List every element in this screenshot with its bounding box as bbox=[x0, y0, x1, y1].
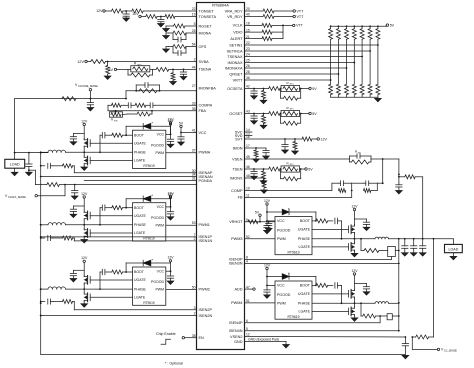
capacitor COCSETA1 bbox=[251, 89, 258, 100]
pin VCC (41) left side of U1 bbox=[192, 129, 207, 135]
resistor R27-3 pull-up bbox=[345, 26, 349, 84]
ground below bank bbox=[375, 97, 382, 102]
svg-text:ISEN4P: ISEN4P bbox=[229, 321, 243, 325]
svg-text:12V: 12V bbox=[77, 60, 84, 64]
pin TSEN (46) right side of U1 bbox=[232, 165, 250, 171]
resistor R37 VRHOT bbox=[248, 220, 258, 224]
node 12V drain supply UC bbox=[81, 256, 88, 275]
ground below QAL bbox=[81, 167, 88, 170]
ground for R5 bbox=[163, 26, 170, 32]
svg-text:4: 4 bbox=[246, 260, 248, 264]
svg-text:44: 44 bbox=[192, 66, 196, 70]
pin ISEN1P (7) left side of U1 bbox=[194, 233, 213, 239]
capacitor C4b boot bbox=[328, 283, 343, 305]
svg-text:IMONX: IMONX bbox=[230, 176, 243, 180]
pin VSEN2 (12) right side of U1 bbox=[230, 333, 250, 339]
svg-text:PHASE: PHASE bbox=[134, 223, 147, 227]
resistor R35 comp leg1 bbox=[338, 189, 345, 193]
svg-text:45: 45 bbox=[246, 155, 250, 159]
wire cell3 sense drop bbox=[360, 238, 364, 251]
node 8V supply for TSENA bbox=[108, 68, 128, 72]
transistor Q3H high-side MOSFET bbox=[349, 225, 355, 239]
pin COMP (10) right side of U1 bbox=[231, 187, 250, 193]
wire IMONFBA line bbox=[125, 91, 196, 100]
resistor ROCSET2 series bbox=[269, 112, 282, 116]
capacitor CBa VCC decoupling bbox=[167, 207, 174, 220]
svg-text:10: 10 bbox=[246, 187, 250, 191]
resistor R21 cell C sense bbox=[53, 300, 74, 310]
capacitor C7 parallel over R14 bbox=[136, 83, 159, 91]
svg-text:12V: 12V bbox=[351, 269, 358, 273]
svg-text:VRA_RDY: VRA_RDY bbox=[225, 9, 243, 13]
inductor LB output bbox=[40, 223, 84, 226]
capacitor C2 TONSETA filter bbox=[158, 17, 164, 24]
wire COMPA line bbox=[155, 104, 196, 106]
svg-text:COMP: COMP bbox=[231, 189, 243, 193]
node 12V supply for SVBA bbox=[77, 60, 90, 64]
pin RGSET (5) left side of U1 bbox=[194, 22, 213, 28]
svg-text:VTT: VTT bbox=[296, 24, 304, 28]
pin VCLK (18) right side of U1 bbox=[233, 22, 250, 28]
node 12V drain supply U3 bbox=[351, 204, 358, 224]
pin TSENAX (24) right side of U1 bbox=[227, 53, 250, 59]
resistor R27-7 pull-up bbox=[376, 26, 380, 84]
inductor LC output bbox=[40, 287, 84, 290]
svg-text:IMONAX: IMONAX bbox=[228, 61, 243, 65]
wire FB line bbox=[245, 191, 352, 198]
pin SVC (14) right side of U1 bbox=[235, 128, 250, 134]
capacitor C19 VSEN filter bbox=[396, 174, 403, 194]
svg-text:SETIN1: SETIN1 bbox=[229, 43, 242, 47]
svg-text:BOOT: BOOT bbox=[134, 270, 145, 274]
transistor QBH high-side MOSFET bbox=[84, 211, 90, 225]
node VCCCORE_SENSE terminal bbox=[75, 83, 98, 100]
wire VSEN remote line bbox=[245, 158, 400, 175]
svg-text:PWM3: PWM3 bbox=[231, 237, 242, 241]
svg-text:20: 20 bbox=[246, 7, 250, 11]
resistor R39 cell4 sense bbox=[363, 314, 387, 318]
wire PWMA line bbox=[166, 152, 197, 154]
LOAD box right bbox=[445, 244, 463, 252]
node VTT terminal 3 bbox=[293, 24, 304, 28]
svg-text:PGNDA: PGNDA bbox=[199, 179, 213, 183]
svg-text:PGOOD: PGOOD bbox=[277, 293, 291, 297]
svg-text:12V: 12V bbox=[96, 9, 103, 13]
pin VRA_RDY (20) right side of U1 bbox=[225, 7, 250, 13]
svg-text:CCCORE_SENSE: CCCORE_SENSE bbox=[78, 85, 98, 88]
wire ISENAN line bbox=[41, 176, 197, 178]
diode D3 bootstrap with asterisk bbox=[266, 207, 316, 221]
svg-text:40: 40 bbox=[246, 13, 250, 17]
resistor R9 SVBA to ground bbox=[106, 62, 110, 77]
capacitor CCc input bbox=[70, 270, 84, 282]
resistor R33 VSEN to rail bbox=[398, 175, 423, 239]
wire VCCGFX sense line bbox=[35, 184, 196, 186]
node footnote optional bbox=[165, 362, 183, 366]
svg-text:15: 15 bbox=[246, 28, 250, 32]
svg-text:37: 37 bbox=[192, 149, 196, 153]
node VTT terminal 2 bbox=[293, 15, 304, 19]
capacitor C14 cell B sense bbox=[40, 235, 53, 240]
svg-text:ISEN2N: ISEN2N bbox=[199, 314, 213, 318]
transistor QCH high-side MOSFET bbox=[84, 275, 90, 289]
wire FBA line bbox=[108, 110, 197, 112]
wire ISENAP line bbox=[74, 172, 196, 174]
pin VR_RDY (40) right side of U1 bbox=[227, 13, 250, 19]
capacitor CBc input bbox=[70, 206, 84, 218]
resistor R18 cell A sense bbox=[53, 164, 74, 173]
svg-text:PWM: PWM bbox=[277, 237, 286, 241]
pin PWM4 (51) right side of U1 bbox=[231, 299, 250, 305]
ground below QBL bbox=[81, 240, 88, 243]
svg-text:SETIN1A: SETIN1A bbox=[227, 49, 243, 53]
svg-text:GND (Exposed Pad): GND (Exposed Pad) bbox=[248, 337, 279, 341]
node 12V supply for TONSETA bbox=[132, 12, 146, 18]
capacitor C11 left output bbox=[26, 153, 36, 185]
capacitor C28 sense filter bbox=[402, 337, 408, 354]
op-amp UB RT9619 gate driver box bbox=[133, 203, 166, 241]
svg-text:41: 41 bbox=[192, 129, 196, 133]
wire PHASE UA bbox=[83, 151, 132, 153]
wire phase rail to cell4 bbox=[398, 239, 400, 331]
svg-text:VCC: VCC bbox=[157, 205, 165, 209]
svg-text:PHASE: PHASE bbox=[298, 302, 311, 306]
thermistor RNTC2 on FBA divider bbox=[110, 111, 123, 123]
capacitor C17 IMON bbox=[263, 148, 270, 159]
pin IMONAXA (26) right side of U1 bbox=[225, 64, 250, 70]
wire IMONX line bbox=[245, 177, 265, 179]
capacitor C27 output bbox=[419, 239, 426, 256]
node 5V supply for IC VCC bbox=[179, 122, 184, 133]
pin ISENAP (30) left side of U1 bbox=[192, 169, 213, 175]
node 12V drain supply UB bbox=[81, 192, 88, 211]
svg-text:27: 27 bbox=[192, 84, 196, 88]
wire right output rail bbox=[389, 238, 454, 244]
svg-text:PGOOD: PGOOD bbox=[151, 216, 165, 220]
resistor R20 cell B sense bbox=[53, 236, 74, 241]
capacitor CTSEN1 bbox=[251, 169, 258, 180]
resistor R17 FBA divider bbox=[123, 111, 153, 116]
pin IMONX (48) right side of U1 bbox=[230, 174, 250, 180]
pin PWM3 (52) right side of U1 bbox=[231, 235, 250, 241]
svg-text:NTC: NTC bbox=[138, 65, 143, 67]
pin SETIN1 (22) right side of U1 bbox=[229, 41, 250, 47]
pin SVBA (2) left side of U1 bbox=[194, 58, 209, 64]
resistor R34 IMONX bbox=[261, 178, 268, 193]
op-amp UC RT9619 gate driver box bbox=[133, 267, 166, 305]
node 12V supply for UB VCC bbox=[167, 193, 174, 207]
svg-text:VCLK: VCLK bbox=[233, 24, 243, 28]
resistor R14 on IMONFBA line bbox=[135, 89, 160, 93]
capacitor C9 COMPA chain bbox=[128, 103, 135, 108]
svg-text:VR_RDY: VR_RDY bbox=[227, 15, 243, 19]
capacitor C26 output bbox=[410, 239, 417, 256]
resistor R11 TSENA series bbox=[150, 67, 197, 71]
wire ISEN3N line bbox=[245, 263, 400, 265]
wire UA VCC connection bbox=[166, 134, 172, 136]
transistor Q4H high-side MOSFET bbox=[349, 289, 355, 303]
svg-text:BOOT: BOOT bbox=[134, 206, 145, 210]
resistor RTSEN3 parallel bbox=[281, 168, 305, 181]
svg-text:OCSET: OCSET bbox=[229, 112, 243, 116]
svg-text:22: 22 bbox=[246, 41, 250, 45]
svg-text:53: 53 bbox=[192, 221, 196, 225]
svg-text:12V: 12V bbox=[264, 199, 271, 203]
svg-text:12V: 12V bbox=[81, 119, 88, 123]
resistor R23 VR_RDY bbox=[245, 15, 294, 19]
wire UC VCC connection bbox=[166, 270, 172, 272]
wire PWM3 line bbox=[245, 238, 276, 240]
svg-text:38: 38 bbox=[192, 334, 196, 338]
resistor R38 cell3 sense bbox=[364, 249, 388, 253]
node 12V supply for TONSET bbox=[96, 9, 111, 13]
svg-text:NTC: NTC bbox=[290, 164, 295, 166]
inductor L4 output bbox=[355, 302, 389, 304]
svg-text:Chip Enable: Chip Enable bbox=[156, 332, 176, 336]
wire VCCCORE sense rail bbox=[15, 99, 126, 153]
svg-text:VRHOT: VRHOT bbox=[229, 220, 243, 224]
ground below C1 bbox=[123, 18, 130, 21]
resistor R1 TONSET upper bbox=[112, 9, 128, 13]
resistor R5 RGSET bbox=[166, 24, 197, 28]
resistor RTSEN2 series bbox=[269, 167, 282, 171]
resistor R12 TSENA to ground bbox=[170, 69, 177, 85]
thermistor RNTC TSEN box bbox=[280, 161, 300, 172]
svg-text:UGATE: UGATE bbox=[298, 228, 311, 232]
resistor R3 TONSETA upper bbox=[146, 15, 162, 19]
wire LGATE UB bbox=[90, 232, 132, 234]
op-amp U4 RT9619 gate driver box bbox=[275, 281, 312, 319]
wire UGATE U4 bbox=[312, 293, 349, 295]
capacitor C24 cell4 sense box bbox=[387, 314, 400, 320]
resistor RAb boot bbox=[112, 133, 133, 137]
resistor RBb boot bbox=[112, 206, 133, 210]
node 12V supply for UA VCC bbox=[167, 119, 174, 135]
pin ISEN2N (2) left side of U1 bbox=[194, 312, 213, 318]
pin IMON (17) right side of U1 bbox=[233, 144, 250, 150]
resistor R28-7 pull-down bbox=[376, 84, 380, 97]
svg-text:2: 2 bbox=[194, 237, 196, 241]
LOAD box left bbox=[5, 153, 25, 169]
wire LGATE UC bbox=[90, 296, 132, 298]
wire SVID bus line 6 bbox=[245, 73, 340, 75]
svg-text:LGATE: LGATE bbox=[134, 231, 146, 235]
svg-text:LGATE: LGATE bbox=[134, 296, 146, 300]
pin IMONFBA (27) left side of U1 bbox=[192, 84, 217, 90]
resistor RTSEN1 to ground bbox=[260, 169, 267, 184]
svg-text:RT9619: RT9619 bbox=[143, 237, 155, 241]
ground below R9 bbox=[104, 76, 111, 79]
svg-text:UGATE: UGATE bbox=[134, 141, 146, 145]
svg-text:UGATE: UGATE bbox=[134, 278, 146, 282]
svg-text:3: 3 bbox=[194, 306, 196, 310]
capacitor CBb boot bbox=[99, 205, 112, 226]
node 5V terminal OCSETA bbox=[309, 87, 317, 91]
capacitor C3a VCC decoupling bbox=[264, 221, 271, 234]
resistor R28-1 pull-down bbox=[329, 84, 333, 97]
ground below left LOAD bbox=[11, 168, 18, 176]
wire UGATE UA bbox=[90, 142, 132, 144]
svg-text:ALERT: ALERT bbox=[230, 37, 243, 41]
inductor LA output bbox=[40, 150, 84, 153]
wire GND exposed pad bbox=[245, 337, 287, 344]
pin OCSET (43) right side of U1 bbox=[229, 110, 249, 116]
diode DB bootstrap with asterisk bbox=[126, 193, 170, 208]
resistor R4b boot bbox=[312, 283, 328, 287]
ground below QCL bbox=[81, 304, 88, 307]
svg-text:LOAD: LOAD bbox=[449, 248, 459, 252]
ground below C6 bbox=[87, 108, 94, 111]
resistor R15 COMPA chain bbox=[135, 103, 150, 107]
wire OCSETA line bbox=[245, 88, 269, 90]
svg-text:RT8894A: RT8894A bbox=[212, 2, 229, 7]
svg-text:LGATE: LGATE bbox=[298, 310, 310, 314]
wire PWM4 line bbox=[245, 302, 276, 304]
wire cell4 coil join bbox=[389, 302, 399, 304]
capacitor C4 OFS parallel bbox=[173, 47, 186, 56]
resistor R8 SVBA series bbox=[91, 60, 197, 64]
svg-text:COMPA: COMPA bbox=[199, 104, 213, 108]
node 5V terminal OCSET bbox=[309, 112, 317, 116]
svg-text:11: 11 bbox=[246, 194, 250, 198]
node ADD open terminal bbox=[245, 288, 256, 290]
wire PHASE U3 bbox=[312, 238, 355, 240]
transistor QAL low-side MOSFET bbox=[84, 152, 90, 167]
svg-text:42: 42 bbox=[246, 85, 250, 89]
svg-text:VDIO: VDIO bbox=[233, 30, 242, 34]
pin VRTT (36) right side of U1 bbox=[233, 76, 250, 82]
capacitor C8 COMPA chain bbox=[150, 103, 155, 108]
capacitor C10 VCC decoupling bbox=[178, 133, 185, 146]
svg-text:CCGFX_SENSE: CCGFX_SENSE bbox=[8, 196, 26, 199]
svg-text:12V: 12V bbox=[264, 263, 271, 267]
pin QRSET (28) right side of U1 bbox=[229, 70, 249, 76]
ground below C2 bbox=[158, 24, 165, 27]
wire UB VCC connection bbox=[166, 206, 172, 208]
pin GND () right side of U1 bbox=[234, 340, 243, 344]
svg-text:9: 9 bbox=[246, 218, 248, 222]
svg-text:5V: 5V bbox=[255, 210, 260, 214]
svg-text:* : Optional: * : Optional bbox=[165, 362, 183, 366]
svg-text:5V: 5V bbox=[312, 112, 317, 116]
svg-text:FB: FB bbox=[238, 196, 243, 200]
capacitor CCb boot bbox=[99, 269, 112, 290]
svg-text:PWM2: PWM2 bbox=[199, 287, 210, 291]
pin SETIN1A (23) right side of U1 bbox=[227, 47, 250, 53]
pin TONSET (22) left side of U1 bbox=[192, 7, 215, 13]
svg-text:5: 5 bbox=[194, 22, 196, 26]
wire VRHOT line bbox=[245, 221, 276, 223]
svg-text:12V: 12V bbox=[167, 193, 174, 197]
svg-text:5V: 5V bbox=[308, 167, 313, 171]
svg-text:TSENAX: TSENAX bbox=[227, 55, 243, 59]
pin PWMA (37) left side of U1 bbox=[192, 149, 211, 155]
pin PGNDA (31) left side of U1 bbox=[192, 177, 213, 183]
resistor R28-6 pull-down bbox=[368, 84, 372, 97]
wire LGATE U3 bbox=[312, 246, 349, 248]
pin ISENAN (34) left side of U1 bbox=[192, 173, 213, 179]
svg-text:NTC: NTC bbox=[290, 84, 295, 86]
svg-text:12V: 12V bbox=[132, 12, 139, 16]
resistor R13 on sense rail bbox=[62, 97, 76, 101]
svg-text:47: 47 bbox=[246, 285, 250, 289]
svg-text:PWM: PWM bbox=[155, 151, 164, 155]
svg-text:VCC: VCC bbox=[277, 284, 285, 288]
resistor R3b boot bbox=[312, 219, 328, 223]
svg-text:VRTT: VRTT bbox=[233, 78, 244, 82]
svg-text:VCC: VCC bbox=[157, 133, 165, 137]
svg-text:VCC: VCC bbox=[157, 269, 165, 273]
svg-text:LGATE: LGATE bbox=[298, 245, 310, 249]
pin ADD (47) right side of U1 bbox=[234, 285, 249, 291]
wire LGATE U4 bbox=[312, 310, 349, 312]
svg-text:IMON: IMON bbox=[233, 146, 243, 150]
wire OCSET line bbox=[245, 113, 269, 115]
node 12V terminal SVT bbox=[317, 137, 327, 141]
svg-text:33: 33 bbox=[192, 102, 196, 106]
svg-text:ADD: ADD bbox=[234, 287, 242, 291]
capacitor CAa VCC decoupling bbox=[167, 134, 174, 147]
wire PHASE U4 bbox=[312, 302, 355, 304]
resistor R22 VRA_RDY bbox=[245, 9, 294, 13]
wire VCC pin line bbox=[180, 132, 196, 134]
wire sense rail from LOAD bbox=[433, 239, 435, 337]
transistor QAH high-side MOSFET bbox=[84, 138, 90, 152]
wire SVID bus line 1 bbox=[245, 44, 379, 46]
svg-text:SVBA: SVBA bbox=[199, 60, 210, 64]
resistor R27-2 pull-up bbox=[336, 26, 340, 84]
pin FB (11) right side of U1 bbox=[238, 194, 250, 200]
svg-text:19: 19 bbox=[192, 13, 196, 17]
resistor R10 parallel with RNTC1 bbox=[128, 69, 153, 77]
svg-text:RT9619: RT9619 bbox=[287, 315, 299, 319]
svg-text:36: 36 bbox=[246, 76, 250, 80]
node Chip Enable terminal bbox=[156, 332, 197, 345]
pin TONSETA (19) left side of U1 bbox=[192, 13, 217, 19]
diode DA bootstrap with asterisk bbox=[126, 121, 170, 136]
wire cell4 sense drop bbox=[360, 302, 363, 316]
resistor R31 IMON bbox=[253, 148, 260, 162]
svg-text:31: 31 bbox=[192, 177, 196, 181]
capacitor CAb boot bbox=[99, 132, 112, 153]
wire PHASE UB bbox=[83, 224, 132, 226]
thermistor RNTC OCSET box bbox=[280, 106, 300, 117]
wire SVT line bbox=[245, 138, 303, 140]
pin TSENA (44) left side of U1 bbox=[192, 66, 212, 72]
pin OCSETA (42) right side of U1 bbox=[227, 85, 250, 91]
svg-text:PHASE: PHASE bbox=[134, 287, 147, 291]
svg-text:BOOT: BOOT bbox=[300, 284, 311, 288]
svg-text:26: 26 bbox=[192, 29, 196, 33]
node 12V supply for UB VCC bbox=[167, 191, 174, 207]
resistor R6 IMONA bbox=[169, 31, 197, 35]
svg-text:TONSET: TONSET bbox=[199, 9, 215, 13]
pin ISEN4P (6) right side of U1 bbox=[229, 319, 248, 325]
svg-text:OFS: OFS bbox=[199, 45, 207, 49]
pin ISEN3P (8) right side of U1 bbox=[229, 256, 248, 262]
wire IMON line bbox=[245, 147, 267, 149]
svg-text:BOOT: BOOT bbox=[134, 133, 145, 137]
node 12V supply for U4 VCC bbox=[264, 263, 275, 286]
node 5V terminal VRHOT bbox=[255, 210, 261, 221]
svg-text:VTT: VTT bbox=[297, 9, 305, 13]
svg-text:RT9619: RT9619 bbox=[287, 251, 299, 255]
resistor ROCSET1 to ground bbox=[260, 114, 267, 129]
node 5V terminal TSEN bbox=[305, 167, 313, 171]
svg-text:12V: 12V bbox=[81, 256, 88, 260]
wire UGATE UC bbox=[90, 279, 132, 281]
ground below Q3L bbox=[351, 253, 358, 256]
